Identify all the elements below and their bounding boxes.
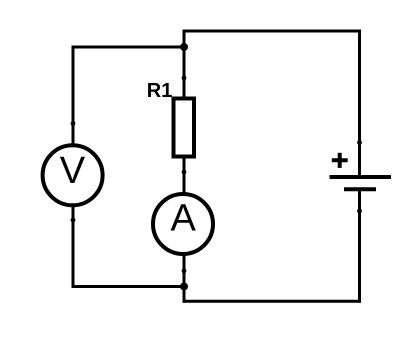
svg-text:V: V bbox=[60, 150, 86, 192]
svg-text:R1: R1 bbox=[147, 80, 173, 102]
svg-text:A: A bbox=[171, 198, 197, 240]
